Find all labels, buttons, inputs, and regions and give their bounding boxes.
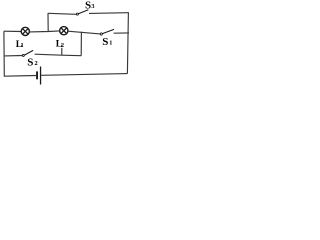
lamp L2	[60, 27, 68, 35]
wire left vertical	[3, 31, 5, 76]
switch S2 pivot	[22, 54, 24, 56]
battery B1 long thin plate	[40, 67, 41, 85]
wire middle rail L2 to S1	[68, 31, 100, 34]
svg-text:3: 3	[91, 3, 94, 10]
switch S1 lever	[102, 29, 114, 33]
svg-text:S: S	[102, 36, 108, 48]
wire middle rail left	[4, 30, 21, 32]
switch S3 lever	[78, 10, 88, 14]
wire S2 rail left	[4, 55, 22, 57]
wire middle rail L1 to L2	[30, 31, 60, 32]
wire top rail right	[89, 12, 129, 15]
battery B1 short thick plate	[36, 71, 38, 79]
svg-text:1: 1	[109, 40, 112, 47]
wire right vertical	[126, 13, 129, 74]
wire S2 branch vertical up	[80, 32, 82, 56]
wire S2 contact rail	[35, 54, 82, 56]
svg-text:2: 2	[61, 42, 64, 49]
svg-text:2: 2	[35, 60, 38, 67]
wire bottom rail right	[41, 74, 127, 76]
svg-text:S: S	[27, 56, 33, 68]
switch S2 lever	[24, 50, 33, 55]
wire top rail left	[48, 13, 76, 14]
switch S3 pivot	[76, 13, 78, 15]
wire bottom rail left	[4, 75, 36, 78]
lamp L1	[21, 27, 29, 35]
switch S1 pivot	[100, 33, 102, 35]
wire stub under L2 label	[61, 48, 63, 56]
wire S1 contact to right vertical	[114, 32, 129, 34]
svg-text:1: 1	[21, 42, 24, 49]
svg-text:S: S	[85, 0, 91, 11]
wire branch vertical to top rail	[47, 13, 49, 32]
